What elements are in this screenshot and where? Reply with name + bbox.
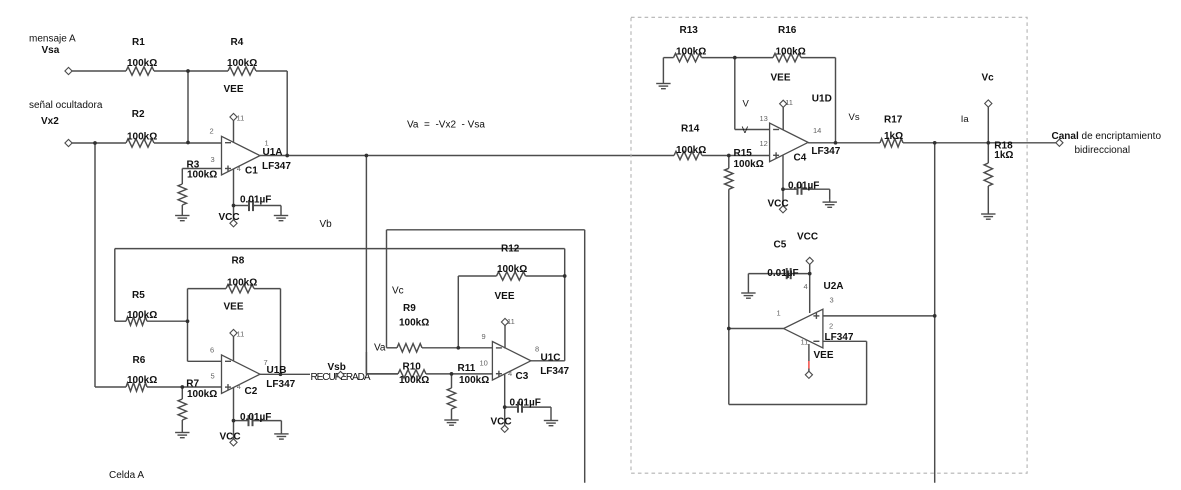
svg-text:0.01µF: 0.01µF [240, 195, 271, 206]
svg-text:2: 2 [210, 127, 214, 136]
svg-text:R10: R10 [403, 361, 422, 372]
svg-text:100kΩ: 100kΩ [187, 389, 217, 400]
svg-text:100kΩ: 100kΩ [676, 145, 706, 156]
svg-text:R9: R9 [403, 303, 416, 314]
svg-text:VEE: VEE [224, 84, 244, 95]
svg-text:VCC: VCC [797, 231, 818, 242]
svg-text:6: 6 [210, 345, 214, 354]
svg-text:0.01µF: 0.01µF [767, 268, 798, 279]
svg-text:R14: R14 [681, 124, 700, 135]
svg-text:Vx2: Vx2 [41, 116, 59, 127]
svg-text:R15: R15 [734, 148, 753, 159]
svg-text:VEE: VEE [771, 73, 791, 84]
svg-text:R6: R6 [133, 355, 146, 366]
svg-text:100kΩ: 100kΩ [227, 278, 257, 289]
svg-text:R2: R2 [132, 109, 145, 120]
svg-text:C5: C5 [774, 240, 787, 251]
svg-text:LF347: LF347 [825, 332, 854, 343]
svg-text:5: 5 [211, 371, 215, 380]
svg-text:LF347: LF347 [540, 366, 569, 377]
svg-text:2: 2 [829, 322, 833, 331]
svg-text:11: 11 [507, 317, 515, 326]
svg-text:C4: C4 [794, 153, 807, 164]
svg-text:0.01µF: 0.01µF [240, 412, 271, 423]
svg-text:9: 9 [482, 332, 486, 341]
svg-text:VCC: VCC [491, 417, 512, 428]
svg-text:VCC: VCC [220, 432, 241, 443]
svg-text:R12: R12 [501, 244, 520, 255]
svg-text:1kΩ: 1kΩ [884, 131, 903, 142]
svg-text:Ia: Ia [961, 114, 970, 125]
svg-text:100kΩ: 100kΩ [497, 264, 527, 275]
svg-text:R11: R11 [458, 363, 476, 374]
svg-text:Canal de encriptamiento: Canal de encriptamiento [1052, 131, 1162, 142]
svg-text:4: 4 [804, 282, 808, 291]
svg-text:VEE: VEE [814, 350, 834, 361]
svg-text:3: 3 [211, 155, 215, 164]
svg-text:11: 11 [237, 113, 245, 122]
svg-text:100kΩ: 100kΩ [127, 375, 157, 386]
svg-text:Vc: Vc [392, 286, 404, 297]
svg-text:10: 10 [480, 359, 488, 368]
svg-text:4: 4 [237, 164, 241, 173]
svg-text:12: 12 [760, 139, 768, 148]
svg-text:bidireccional: bidireccional [1075, 145, 1131, 156]
svg-text:11: 11 [801, 337, 809, 346]
svg-text:R13: R13 [680, 25, 699, 36]
svg-text:100kΩ: 100kΩ [227, 58, 257, 69]
svg-text:LF347: LF347 [262, 161, 291, 172]
svg-text:100kΩ: 100kΩ [776, 47, 806, 58]
svg-text:100kΩ: 100kΩ [734, 159, 764, 170]
svg-text:100kΩ: 100kΩ [459, 375, 489, 386]
svg-text:VEE: VEE [495, 291, 515, 302]
svg-text:V: V [743, 99, 750, 110]
svg-text:Va = -Vx2 - Vsa: Va = -Vx2 - Vsa [407, 120, 485, 131]
svg-text:VCC: VCC [768, 199, 789, 210]
svg-text:100kΩ: 100kΩ [676, 47, 706, 58]
svg-text:U1C: U1C [541, 352, 561, 363]
svg-text:7: 7 [264, 358, 268, 367]
svg-text:13: 13 [760, 114, 768, 123]
svg-text:R1: R1 [132, 37, 145, 48]
svg-text:C3: C3 [516, 371, 529, 382]
svg-text:LF347: LF347 [266, 379, 295, 390]
svg-text:R4: R4 [231, 37, 244, 48]
svg-text:100kΩ: 100kΩ [187, 170, 217, 181]
svg-text:VCC: VCC [219, 212, 240, 223]
svg-text:Va: Va [374, 343, 386, 354]
svg-text:100kΩ: 100kΩ [127, 132, 157, 143]
svg-text:Vs: Vs [849, 112, 860, 123]
svg-text:R5: R5 [132, 290, 145, 301]
svg-text:R7: R7 [186, 378, 199, 389]
svg-text:R8: R8 [232, 256, 245, 267]
svg-text:3: 3 [830, 296, 834, 305]
svg-text:1kΩ: 1kΩ [994, 150, 1013, 161]
svg-text:100kΩ: 100kΩ [127, 310, 157, 321]
svg-text:U1B: U1B [267, 365, 287, 376]
svg-text:100kΩ: 100kΩ [399, 318, 429, 329]
svg-text:0.01µF: 0.01µF [510, 397, 541, 408]
svg-text:C1: C1 [245, 166, 258, 177]
svg-text:8: 8 [535, 345, 539, 354]
svg-text:R17: R17 [884, 114, 903, 125]
svg-text:U1D: U1D [812, 94, 832, 105]
svg-text:señal ocultadora: señal ocultadora [29, 100, 103, 111]
svg-text:Vc: Vc [982, 73, 995, 84]
svg-text:LF347: LF347 [811, 146, 840, 157]
svg-text:14: 14 [813, 126, 821, 135]
svg-text:1: 1 [777, 309, 781, 318]
svg-text:U1A: U1A [263, 147, 283, 158]
svg-text:U2A: U2A [824, 281, 844, 292]
svg-text:mensaje A: mensaje A [29, 34, 76, 45]
svg-text:Celda A: Celda A [109, 470, 144, 481]
svg-text:VEE: VEE [224, 302, 244, 313]
svg-text:Vsa: Vsa [42, 45, 60, 56]
svg-text:V: V [742, 125, 749, 136]
svg-text:1: 1 [265, 139, 269, 148]
svg-text:Vb: Vb [320, 219, 333, 230]
svg-text:100kΩ: 100kΩ [399, 375, 429, 386]
svg-text:11: 11 [785, 98, 793, 107]
svg-text:4: 4 [237, 382, 241, 391]
svg-text:R16: R16 [778, 25, 797, 36]
svg-text:C2: C2 [245, 386, 258, 397]
svg-text:0.01µF: 0.01µF [788, 180, 819, 191]
svg-text:4: 4 [508, 369, 512, 378]
svg-text:11: 11 [237, 329, 245, 338]
svg-text:100kΩ: 100kΩ [127, 58, 157, 69]
